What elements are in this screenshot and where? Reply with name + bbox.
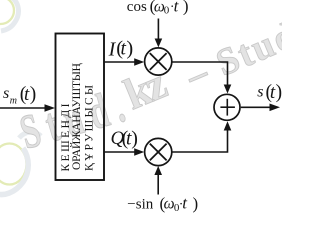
wire multiplier2 to adder (elbow): [173, 130, 228, 153]
svg-text:ОРАЙЖАНАУШТЫҢ: ОРАЙЖАНАУШТЫҢ: [69, 63, 83, 170]
multiplier U2 (bottom): [145, 138, 172, 165]
label I(t): [108, 38, 134, 61]
wire cos to multiplier: [157, 19, 159, 41]
watermark logo top-left: [0, 0, 18, 31]
svg-text:cos: cos: [127, 0, 147, 15]
svg-text:): ): [131, 128, 138, 150]
label Q(t): [111, 128, 138, 150]
output wire: [241, 106, 271, 108]
multiplier U1 (top): [145, 48, 172, 75]
box: complex envelope former: [56, 34, 105, 181]
svg-text:I: I: [108, 38, 117, 60]
svg-text:m: m: [10, 96, 17, 107]
I wire: [105, 61, 137, 63]
svg-text:−sin: −sin: [127, 197, 153, 213]
svg-text:s: s: [3, 85, 9, 102]
adder U3: [214, 94, 240, 120]
label s_m(t): [3, 84, 36, 107]
cos label: [127, 0, 189, 16]
svg-text:): ): [183, 0, 189, 16]
svg-text:s: s: [257, 83, 263, 100]
svg-text:): ): [126, 38, 133, 60]
svg-text:): ): [30, 84, 37, 105]
Q wire: [105, 151, 137, 153]
-sin label: [127, 194, 198, 215]
svg-text:): ): [193, 194, 199, 213]
watermark text Stud.kz - Stu: [14, 13, 304, 159]
wire -sin to multiplier: [157, 174, 159, 195]
svg-text:ҚҰРУШЫСЫ: ҚҰРУШЫСЫ: [84, 85, 96, 171]
svg-text:): ): [276, 82, 282, 103]
watermark logo bottom-left: [0, 132, 41, 194]
svg-text:0: 0: [164, 4, 170, 16]
input wire: [0, 107, 46, 109]
wire multiplier1 to adder (elbow): [173, 62, 228, 86]
label s(t): [257, 82, 282, 103]
